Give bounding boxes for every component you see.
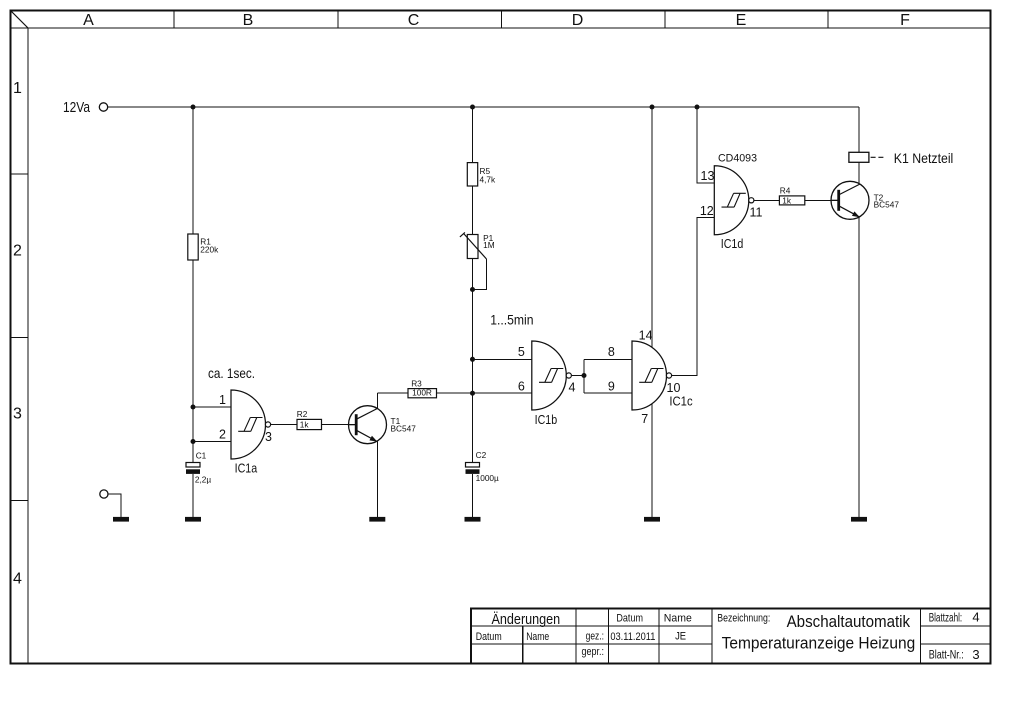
svg-text:Temperaturanzeige Heizung: Temperaturanzeige Heizung (722, 634, 916, 653)
capacitor C1 top plate (186, 463, 200, 468)
wire R2 to T1 base (322, 424, 356, 426)
column tick E|F (827, 11, 829, 29)
row tick 3|4 (11, 500, 29, 502)
wire 12Va top rail (108, 106, 859, 108)
node rail-pin13 (695, 105, 700, 110)
svg-text:JE: JE (675, 631, 686, 643)
wire T1 emitter to ground (376, 442, 378, 517)
row tick 1|2 (11, 173, 29, 175)
ground (C2) (465, 517, 481, 522)
svg-text:gez.:: gez.: (586, 631, 604, 643)
svg-text:4: 4 (13, 571, 22, 588)
wire C2 to ground (472, 474, 474, 517)
svg-text:E: E (736, 12, 747, 29)
ground (IC1c pin 7) (644, 517, 660, 522)
RESISTORS / CAPACITORS / RELAY (186, 152, 869, 467)
transistor T1 BC547 (349, 406, 387, 444)
Blattzahl row line 2 (920, 643, 990, 645)
svg-text:1M: 1M (483, 240, 495, 250)
svg-text:D: D (572, 12, 584, 29)
svg-text:3: 3 (13, 406, 22, 423)
svg-text:Bezeichnung:: Bezeichnung: (717, 613, 770, 625)
wire R1 branch upper (192, 107, 194, 234)
resistor R2 (297, 419, 322, 429)
wire rail to R5 (472, 107, 474, 163)
wire node vertical pin8-pin9 (583, 359, 585, 393)
ground (T1 emitter) (369, 517, 385, 522)
resistor R5 (467, 163, 477, 186)
svg-text:1000µ: 1000µ (476, 473, 499, 483)
wire IC1a pin 2 (193, 441, 231, 443)
title block row line 1 (471, 625, 712, 627)
wire C1 to ground (192, 474, 194, 517)
svg-text:CD4093: CD4093 (718, 153, 757, 165)
svg-text:1k: 1k (300, 420, 310, 430)
title block vertical Datum column (658, 609, 660, 664)
title block outline (471, 609, 991, 664)
svg-text:C1: C1 (196, 451, 207, 461)
svg-text:BC547: BC547 (874, 199, 900, 209)
frame left band line (27, 28, 29, 664)
wire IC1b output to node (572, 375, 584, 377)
svg-text:4,7k: 4,7k (480, 175, 497, 185)
svg-text:14: 14 (639, 329, 653, 343)
TITLE BLOCK (471, 609, 991, 664)
capacitor C1 bottom plate (186, 469, 200, 474)
op-amp/gate IC1c (NAND Schmitt) (632, 341, 672, 410)
svg-text:1k: 1k (782, 195, 792, 205)
title block vertical Name column (711, 609, 713, 664)
node IC1b pin5 (470, 357, 475, 362)
Blattzahl row line 1 (920, 625, 990, 627)
title block vertical gez column (607, 609, 609, 664)
relay coil K1 (849, 152, 869, 162)
svg-text:IC1b: IC1b (535, 412, 558, 427)
title block vertical Blattzahl column (919, 609, 921, 664)
column tick C|D (501, 11, 503, 29)
relay K1 dashed link (871, 156, 885, 158)
resistor R1 (188, 234, 198, 260)
svg-text:R2: R2 (297, 409, 308, 419)
op-amp/gate IC1b (NAND Schmitt) (532, 341, 572, 410)
svg-text:R4: R4 (780, 186, 791, 196)
svg-text:Datum: Datum (616, 613, 643, 625)
resistor R3 (408, 389, 437, 398)
wire IC1d pin 13 from rail (697, 107, 714, 183)
ground (T2 emitter) (851, 517, 867, 522)
op-amp/gate IC1d (NAND Schmitt) (714, 166, 754, 235)
wire node to C1 (192, 442, 194, 463)
svg-text:4: 4 (569, 380, 576, 394)
wire relay to T2 collector (858, 162, 860, 183)
wire rail down to relay K1 (858, 107, 860, 152)
svg-text:220k: 220k (200, 245, 219, 255)
resistor R4 (779, 196, 804, 205)
svg-text:IC1a: IC1a (235, 461, 258, 476)
node IC1b output (582, 373, 587, 378)
frame corner diagonal (11, 11, 28, 28)
svg-text:gepr.:: gepr.: (582, 646, 605, 658)
wire to IC1c pin 9 (584, 392, 632, 394)
svg-text:BC547: BC547 (391, 423, 417, 433)
svg-text:3: 3 (265, 430, 272, 444)
svg-text:C2: C2 (476, 450, 487, 460)
svg-text:1: 1 (13, 80, 22, 97)
svg-text:B: B (243, 12, 254, 29)
net 12Va terminal circle (99, 103, 107, 111)
svg-text:6: 6 (518, 379, 525, 393)
wire IC1c output pin 10 (672, 218, 714, 376)
potentiometer P1 wiper arrow diagonal (464, 233, 487, 259)
node P1 wiper (470, 287, 475, 292)
capacitor C2 top plate (466, 463, 480, 468)
wire to IC1c pin 8 (584, 358, 632, 360)
node rail-R5 (470, 105, 475, 110)
svg-text:IC1d: IC1d (721, 236, 744, 251)
svg-text:K1 Netzteil: K1 Netzteil (894, 151, 954, 166)
grounds (113, 517, 867, 522)
svg-text:4: 4 (972, 610, 979, 625)
capacitor C2 bottom plate (466, 469, 480, 474)
TEXT LABELS (219, 169, 763, 476)
column tick B|C (337, 11, 339, 29)
wire R3 to C rail node (437, 392, 473, 394)
svg-text:IC1c: IC1c (669, 394, 693, 409)
svg-text:12Va: 12Va (63, 100, 91, 116)
wire T1 collector up (376, 393, 378, 408)
column tick D|E (664, 11, 666, 29)
svg-text:13: 13 (701, 169, 715, 183)
ground (terminal) (113, 517, 129, 522)
node rail-R1 (191, 105, 196, 110)
node IC1a pin1 (191, 405, 196, 410)
svg-text:03.11.2011: 03.11.2011 (610, 631, 655, 643)
wire IC1a output to R2 (271, 424, 297, 426)
svg-text:ca. 1sec.: ca. 1sec. (208, 365, 255, 381)
svg-text:100R: 100R (412, 388, 432, 398)
svg-text:A: A (83, 12, 94, 29)
ground (C1) (185, 517, 201, 522)
wire P1 wiper (473, 259, 487, 290)
wire IC1b pin 5 (473, 358, 532, 360)
node IC1a pin2 / C1 (191, 439, 196, 444)
row tick 2|3 (11, 337, 29, 339)
svg-text:Name: Name (664, 613, 692, 625)
SCHEMATIC (99, 103, 108, 498)
svg-text:7: 7 (641, 412, 648, 426)
svg-text:Datum: Datum (476, 631, 502, 643)
svg-text:12: 12 (700, 204, 714, 218)
op-amp/gate IC1a (NAND Schmitt) (231, 390, 271, 459)
column tick A|B (173, 11, 175, 29)
wire bottom-left terminal to ground (108, 494, 121, 517)
wire P1 down through nodes to C2 (472, 259, 474, 463)
wire IC1c pin 7 to ground (651, 403, 653, 517)
svg-text:8: 8 (608, 345, 615, 359)
svg-text:11: 11 (750, 206, 763, 220)
svg-text:2: 2 (13, 243, 22, 260)
wire IC1b pin 6 (473, 392, 532, 394)
title block row line 2 (471, 643, 712, 645)
wire IC1a pin 1 (193, 406, 231, 408)
svg-text:3: 3 (972, 647, 979, 662)
wire IC1c pin 14 from rail (651, 107, 653, 348)
svg-text:F: F (900, 12, 910, 29)
svg-text:Name: Name (526, 631, 549, 643)
title block vertical Datum|Name (522, 626, 524, 663)
svg-text:1: 1 (219, 393, 226, 407)
svg-text:2: 2 (219, 428, 226, 442)
svg-text:2,2µ: 2,2µ (195, 475, 212, 485)
node rail-pin14 (650, 105, 655, 110)
transistor T2 BC547 (831, 181, 869, 219)
wire R1 to IC1a pin1 node (192, 260, 194, 442)
wire R4 to T2 base (805, 199, 838, 201)
svg-text:Änderungen: Änderungen (492, 611, 561, 628)
wire T2 emitter to ground (858, 217, 860, 517)
potentiometer P1 body (467, 235, 478, 259)
svg-text:Blattzahl:: Blattzahl: (929, 613, 963, 625)
svg-text:1...5min: 1...5min (490, 313, 533, 328)
wire T1 collector to R3 (377, 392, 408, 394)
wire IC1d output to R4 (754, 199, 779, 201)
svg-text:Blatt-Nr.:: Blatt-Nr.: (929, 649, 964, 661)
svg-text:5: 5 (518, 345, 525, 359)
potentiometer P1 arrow tick (460, 232, 465, 237)
terminal circle bottom left (100, 490, 108, 498)
svg-text:C: C (408, 12, 420, 29)
wire R5 to P1 (472, 186, 474, 235)
node IC1b pin6 / R3 (470, 391, 475, 396)
title block vertical end of Aenderungen (575, 609, 577, 664)
svg-text:9: 9 (608, 379, 615, 393)
junction dots (191, 105, 700, 445)
frame header band bottom line (11, 27, 991, 29)
svg-text:Abschaltautomatik: Abschaltautomatik (787, 612, 911, 631)
